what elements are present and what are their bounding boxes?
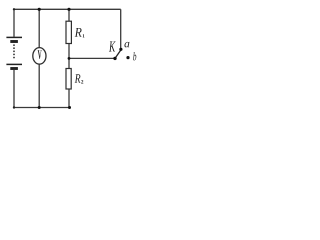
junction node top voltmeter	[38, 8, 41, 11]
label K	[109, 42, 116, 52]
battery long plate 2	[6, 63, 22, 65]
wire switch feed	[69, 57, 115, 59]
resistor R2	[66, 69, 71, 90]
label R2	[75, 74, 84, 83]
wire left upper	[13, 9, 15, 37]
wire R branch middle	[68, 44, 70, 69]
junction node bottom R2	[68, 106, 71, 109]
battery dotted cells	[13, 45, 15, 61]
label b	[133, 52, 136, 60]
junction bottom-left corner	[13, 106, 15, 108]
label R1	[75, 28, 85, 38]
wire R branch bottom	[68, 89, 70, 108]
voltmeter V body	[33, 48, 46, 65]
label a	[124, 42, 129, 48]
wire voltmeter branch upper	[38, 9, 40, 47]
wire top	[14, 8, 121, 10]
contact b dot	[126, 56, 129, 59]
battery long plate 1	[6, 36, 22, 38]
wire bottom	[14, 107, 70, 109]
resistor R1	[66, 21, 71, 43]
voltmeter letter V	[38, 50, 42, 59]
switch K blade	[115, 49, 122, 59]
wire R branch top	[68, 9, 70, 21]
wire left lower	[13, 70, 15, 108]
switch K pivot dot	[113, 57, 116, 60]
contact a dot	[119, 48, 122, 51]
wire voltmeter branch lower	[38, 64, 40, 107]
battery short thick plate 1	[10, 40, 18, 43]
junction node bottom voltmeter	[38, 106, 41, 109]
junction node top R1	[67, 8, 70, 11]
battery short thick plate 2	[10, 67, 18, 70]
junction top-left corner	[13, 8, 15, 10]
wire right	[120, 9, 122, 48]
junction node R1-R2	[68, 57, 71, 60]
battery B1	[6, 37, 22, 68]
